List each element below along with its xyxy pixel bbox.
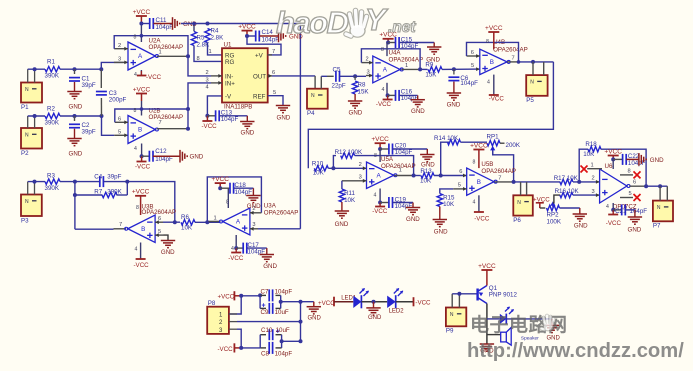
pin 6 stub U3B xyxy=(155,221,163,223)
wire P3 pins to R3 node xyxy=(27,182,29,195)
svg-text:4: 4 xyxy=(134,146,137,152)
capacitor C11 xyxy=(149,18,151,29)
svg-text:-VCC: -VCC xyxy=(228,255,244,262)
svg-text:GND: GND xyxy=(434,229,448,236)
op-amp U4B xyxy=(480,49,507,74)
wire C15 to GND xyxy=(399,42,434,44)
svg-text:R1: R1 xyxy=(47,59,55,66)
pin 6 stub U2B xyxy=(115,121,128,123)
svg-text:+VCC: +VCC xyxy=(133,9,151,16)
wire output to P5/loop xyxy=(519,61,554,63)
svg-text:C8: C8 xyxy=(261,350,269,357)
svg-text:8: 8 xyxy=(381,47,384,53)
pin 1 stub U6 with X xyxy=(587,168,602,170)
svg-text:8: 8 xyxy=(486,39,489,45)
capacitor C19 xyxy=(380,202,389,204)
svg-text:N: N xyxy=(530,80,534,86)
svg-text:7: 7 xyxy=(119,222,122,228)
wire U6 V- stem xyxy=(612,203,614,210)
wire node up to R12 xyxy=(333,156,336,169)
svg-text:6: 6 xyxy=(459,169,462,175)
svg-text:GND: GND xyxy=(69,151,83,158)
wire U5A output xyxy=(394,175,413,177)
svg-text:R8: R8 xyxy=(358,81,366,88)
svg-text:39pF: 39pF xyxy=(82,82,96,89)
power +VCC above U3A xyxy=(215,182,226,184)
svg-text:-VCC: -VCC xyxy=(135,163,151,170)
wire R1 to C1 node xyxy=(60,68,101,70)
wire RP1 wiper to out xyxy=(493,151,514,182)
svg-text:6: 6 xyxy=(633,180,636,186)
capacitor C7 xyxy=(260,294,266,296)
connector P6 xyxy=(513,195,533,215)
svg-text:8: 8 xyxy=(134,35,137,41)
power -VCC below U5A xyxy=(379,203,381,207)
svg-text:7: 7 xyxy=(272,49,275,55)
svg-text:PNP 9012: PNP 9012 xyxy=(489,292,518,299)
junction U5B output xyxy=(512,180,516,184)
svg-text:OUT: OUT xyxy=(253,74,266,81)
svg-text:RG: RG xyxy=(225,59,234,66)
svg-text:7: 7 xyxy=(159,120,162,126)
connector P3 xyxy=(21,195,42,217)
ground below R15 xyxy=(439,207,441,220)
junction -V/C13 xyxy=(205,114,209,118)
svg-text:15K: 15K xyxy=(358,88,370,95)
power +VCC near C14 xyxy=(242,30,253,32)
svg-text:10K: 10K xyxy=(313,170,325,177)
svg-text:3: 3 xyxy=(118,57,121,63)
junction VCC/C11 xyxy=(139,22,143,26)
svg-text:P9: P9 xyxy=(446,328,454,335)
resistor R7 xyxy=(102,192,117,197)
junction feedback/V+ crossing xyxy=(140,34,144,38)
junction R9/C6 xyxy=(452,67,456,71)
resistor R18 xyxy=(588,147,601,152)
svg-text:R14 10K: R14 10K xyxy=(434,135,459,142)
wire VCC to C14 xyxy=(247,35,256,37)
svg-text:-VCC: -VCC xyxy=(606,220,622,227)
op-amp U3B xyxy=(128,215,155,243)
wire U5B output xyxy=(495,181,514,183)
power +VCC above U4A xyxy=(383,38,394,40)
ground below C13 xyxy=(246,116,248,122)
wire P9 pins up xyxy=(451,294,453,308)
junction VCC/C20 xyxy=(378,147,382,151)
pin 5 stub U5B xyxy=(453,188,467,190)
pin 3 stub U3A xyxy=(250,228,258,230)
junction LED mid xyxy=(372,300,376,304)
svg-text:6: 6 xyxy=(118,116,121,122)
wire U4B V- stem xyxy=(493,75,495,95)
svg-text:4: 4 xyxy=(487,80,490,86)
wire U4A V+ stem xyxy=(386,43,388,57)
resistor R14 xyxy=(448,140,461,145)
capacitor C20 xyxy=(380,148,389,150)
svg-text:-VCC: -VCC xyxy=(474,216,490,223)
svg-text:3: 3 xyxy=(367,70,370,76)
op-amp U4A xyxy=(373,56,400,83)
power -VCC below U2A xyxy=(137,75,147,77)
ground below R11 xyxy=(341,202,343,211)
resistor R10 xyxy=(314,166,328,171)
connector P1 xyxy=(21,83,42,103)
capacitor C8 xyxy=(260,347,266,349)
pin 8 stub U6 with X xyxy=(620,174,633,176)
junction R3/C4 node xyxy=(73,180,77,184)
wire P1 pins to R1 node xyxy=(27,69,29,82)
svg-text:+VCC: +VCC xyxy=(371,136,389,143)
wire U2B feedback xyxy=(115,109,188,122)
svg-text:P6: P6 xyxy=(513,217,521,224)
svg-text:6: 6 xyxy=(272,70,275,76)
junction caps right mid xyxy=(279,300,283,304)
wire U2A V+ stem xyxy=(140,24,142,43)
wire node to R7 xyxy=(75,194,103,196)
junction -VCC rail xyxy=(239,346,243,350)
resistor R17 xyxy=(560,179,573,184)
connector P5 xyxy=(526,75,547,96)
power -VCC below U6 xyxy=(612,210,614,215)
wire LED2 to -VCC xyxy=(396,301,414,303)
power +VCC above Q1 xyxy=(481,269,492,271)
svg-text:6: 6 xyxy=(471,50,474,56)
svg-text:104pF: 104pF xyxy=(401,43,419,50)
svg-text:R17 10K: R17 10K xyxy=(554,175,579,182)
resistor R8 xyxy=(354,76,356,80)
op-amp U3A xyxy=(223,208,250,235)
svg-text:http://www.cndzz.com/: http://www.cndzz.com/ xyxy=(467,340,684,362)
wire node down xyxy=(74,182,76,230)
wire rail to R5 xyxy=(193,24,195,32)
svg-text:B: B xyxy=(138,127,142,134)
junction VCC/C15 xyxy=(386,41,390,45)
svg-text:P2: P2 xyxy=(21,150,29,157)
pin 2 stub U4A xyxy=(361,62,372,64)
wire P4 right pin up xyxy=(320,76,322,88)
svg-text:+V: +V xyxy=(255,52,264,59)
svg-text:N: N xyxy=(25,133,29,139)
svg-text:3: 3 xyxy=(252,222,255,228)
svg-text:8: 8 xyxy=(628,169,631,175)
wire U4A V- stem xyxy=(386,83,388,96)
power -VCC below U5B xyxy=(474,211,484,213)
ground right of RP2 xyxy=(579,208,581,214)
junction P1 right pin xyxy=(33,67,37,71)
ground right of C11 xyxy=(172,17,174,30)
ground right of speaker xyxy=(545,324,559,326)
power -VCC below U4A xyxy=(387,95,389,99)
ground mid stub xyxy=(313,302,315,307)
svg-text:R2: R2 xyxy=(47,105,55,112)
wire collector down xyxy=(486,304,488,345)
svg-text:C7: C7 xyxy=(261,288,269,295)
svg-text:2: 2 xyxy=(359,162,362,168)
op-amp U5B xyxy=(467,168,494,195)
capacitor C14 xyxy=(255,31,257,42)
svg-text:OPA2604AP: OPA2604AP xyxy=(493,47,528,54)
junction U4B output xyxy=(517,60,521,64)
pin 3 stub U6 xyxy=(596,193,600,197)
connector P2 xyxy=(21,128,42,149)
svg-text:1: 1 xyxy=(591,162,594,168)
wire P5 pins xyxy=(532,62,534,75)
wire C21 to GND xyxy=(626,209,635,211)
pin5 REF wire xyxy=(268,96,283,106)
wire pin3 to R11 xyxy=(341,181,343,189)
wire C5 to R8 node xyxy=(340,75,366,77)
resistor R9 xyxy=(420,68,427,70)
ground right of C22 xyxy=(638,153,640,166)
resistor R11 xyxy=(339,189,344,202)
wire R10 to node xyxy=(328,167,364,169)
svg-text:GND: GND xyxy=(411,108,425,115)
svg-text:22pF: 22pF xyxy=(332,83,346,90)
wire pin5 to R15 xyxy=(440,189,453,194)
pin 6 stub U5B xyxy=(463,174,467,178)
svg-text:R7: R7 xyxy=(94,189,102,196)
capacitor C5 xyxy=(327,75,334,77)
ground below LEDs xyxy=(373,302,375,308)
svg-text:10K: 10K xyxy=(344,197,356,204)
power -VCC LED row xyxy=(413,297,415,306)
wire P2 pins to R2 node xyxy=(27,116,29,128)
svg-text:haoD: haoD xyxy=(276,5,349,40)
svg-text:2: 2 xyxy=(118,43,121,49)
junction P2 right pin xyxy=(33,114,37,118)
capacitor C13 xyxy=(207,115,215,117)
svg-text:REF: REF xyxy=(253,93,266,100)
wire rail corner down right xyxy=(208,24,301,228)
junction V-/C17 xyxy=(234,246,238,250)
svg-text:C9: C9 xyxy=(261,309,269,316)
power -VCC below U3B xyxy=(136,258,146,260)
svg-text:2.8K: 2.8K xyxy=(197,42,211,49)
svg-text:5: 5 xyxy=(158,229,161,235)
svg-text:+VCC: +VCC xyxy=(238,23,256,30)
svg-text:OPA2604AP: OPA2604AP xyxy=(264,209,299,216)
power -VCC below U2B xyxy=(141,156,143,161)
svg-text:8: 8 xyxy=(374,153,377,159)
svg-text:8: 8 xyxy=(197,56,200,62)
resistor R1 xyxy=(45,67,60,72)
svg-text:4: 4 xyxy=(231,246,234,252)
junction R6 left xyxy=(173,220,177,224)
ground below C15 xyxy=(427,46,441,48)
svg-text:1: 1 xyxy=(159,50,162,56)
svg-text:7: 7 xyxy=(512,55,515,61)
wire U4B out down to stage3 xyxy=(308,62,553,168)
svg-text:+VCC: +VCC xyxy=(211,176,229,183)
svg-text:R5: R5 xyxy=(197,35,205,42)
svg-text:-VCC: -VCC xyxy=(415,299,431,306)
capacitor C21 xyxy=(613,209,621,211)
potentiometer RP2 xyxy=(540,207,546,209)
wire output to IN- xyxy=(188,56,211,76)
svg-text:5: 5 xyxy=(118,129,121,135)
junction V-/C19 xyxy=(378,201,382,205)
svg-text:4: 4 xyxy=(135,247,138,253)
svg-text:R6: R6 xyxy=(181,214,189,221)
capacitor C2 xyxy=(74,116,76,121)
resistor R12 xyxy=(341,153,355,158)
svg-text:104pF: 104pF xyxy=(275,350,293,357)
junction P5 left pin xyxy=(531,60,535,64)
svg-text:P5: P5 xyxy=(526,97,534,104)
svg-text:200K: 200K xyxy=(506,142,521,149)
power +VCC above U6 xyxy=(608,155,619,157)
junction V-/C16 xyxy=(386,93,390,97)
svg-text:390K: 390K xyxy=(45,185,60,192)
svg-text:OPA2604AP: OPA2604AP xyxy=(142,209,177,216)
capacitor C10 electrolytic xyxy=(260,334,266,336)
pin 5 stub U3B xyxy=(155,234,163,236)
svg-text:1: 1 xyxy=(214,216,217,222)
svg-text:R9: R9 xyxy=(425,62,433,69)
power +VCC above U4B xyxy=(488,31,499,33)
ground below C17 xyxy=(260,254,274,256)
resistor R6 xyxy=(181,220,195,225)
power +VCC above U2B xyxy=(136,93,147,95)
svg-text:104pF: 104pF xyxy=(395,149,413,156)
svg-text:GND: GND xyxy=(263,263,277,270)
svg-text:+VCC: +VCC xyxy=(604,148,622,155)
wire R13 to pin6 node xyxy=(434,175,467,177)
svg-text:GND: GND xyxy=(628,227,642,234)
wire RP2 wiper to R16 xyxy=(553,195,560,203)
ground below R8 xyxy=(354,94,356,101)
watermark cndzz text xyxy=(467,313,684,362)
wire C4 right xyxy=(104,181,128,183)
svg-text:N: N xyxy=(657,205,661,211)
pin 2 stub U6 xyxy=(596,180,600,184)
junction R7 row xyxy=(73,193,77,197)
svg-text:5: 5 xyxy=(458,183,461,189)
wire R4 to pin1 xyxy=(208,43,222,55)
svg-text:P3: P3 xyxy=(21,217,29,224)
junction C4/R7 right xyxy=(125,180,129,184)
wire U2B output xyxy=(157,128,188,130)
svg-text:N: N xyxy=(25,199,29,205)
svg-text:+VCC: +VCC xyxy=(318,300,335,307)
svg-text:104pF: 104pF xyxy=(275,288,293,295)
svg-text:+VCC: +VCC xyxy=(218,294,235,301)
power -VCC below U4B xyxy=(489,94,499,96)
capacitor C22 xyxy=(613,158,622,160)
pin6 OUT wire xyxy=(268,75,272,77)
wire U2A output xyxy=(157,55,188,57)
capacitor C12 xyxy=(148,151,150,162)
wire C22 to GND xyxy=(626,158,639,160)
svg-text:-VCC: -VCC xyxy=(134,262,150,269)
wire R14 to RP1 xyxy=(461,141,488,143)
wire C12 to GND xyxy=(153,155,180,157)
wire +VCC to caps xyxy=(241,295,260,297)
wire collector to LED3 xyxy=(487,318,500,320)
wire C17 to GND xyxy=(247,247,267,249)
junction R13/R14 xyxy=(439,174,443,178)
wire R6 right xyxy=(195,221,221,223)
ground right of C14 xyxy=(278,30,280,43)
svg-text:-VCC: -VCC xyxy=(372,208,388,215)
svg-text:104pF: 104pF xyxy=(221,116,239,123)
speaker SP xyxy=(501,332,507,342)
wire U4B output xyxy=(507,61,518,63)
junction R1/C1 xyxy=(73,67,77,71)
ground below C1 xyxy=(67,91,81,93)
op-amp U2A xyxy=(128,42,155,70)
svg-text:8: 8 xyxy=(134,108,137,114)
svg-text:GND: GND xyxy=(335,221,349,228)
pin 6 stub U4B xyxy=(467,55,480,57)
power +VCC above U5B xyxy=(473,149,484,151)
svg-text:39pF: 39pF xyxy=(107,174,121,181)
potentiometer RP1 xyxy=(487,141,500,146)
wire R16 to pin3 U6 xyxy=(573,194,600,196)
connector P7 xyxy=(653,201,673,222)
svg-text:R16 10K: R16 10K xyxy=(555,188,580,195)
svg-text:N: N xyxy=(450,312,454,318)
ground below C16 xyxy=(411,99,425,101)
svg-text:8: 8 xyxy=(473,160,476,166)
svg-text:GND: GND xyxy=(247,203,261,210)
junction GND rail node xyxy=(299,300,303,304)
wire U6 output xyxy=(629,185,646,187)
svg-text:B: B xyxy=(490,59,494,66)
svg-text:U5A: U5A xyxy=(381,156,394,163)
wire output to IN+ xyxy=(188,83,211,129)
svg-text:7: 7 xyxy=(498,175,501,181)
svg-text:IN+: IN+ xyxy=(225,80,235,87)
wire R2 to C2 node xyxy=(60,115,102,117)
wire C11 to GND xyxy=(154,23,173,25)
svg-text:4: 4 xyxy=(606,204,609,210)
svg-text:10uF: 10uF xyxy=(276,327,290,334)
svg-text:B: B xyxy=(477,179,481,186)
svg-text:5: 5 xyxy=(629,191,632,197)
power +VCC above U5A xyxy=(375,142,386,144)
op-amp U5A xyxy=(367,162,394,189)
svg-text:OPA2604AP: OPA2604AP xyxy=(149,114,184,121)
junction U2A output xyxy=(186,54,190,58)
resistor R13 xyxy=(414,175,421,177)
svg-text:2: 2 xyxy=(366,57,369,63)
junction V-/C21 xyxy=(611,208,615,212)
svg-text:4: 4 xyxy=(382,87,385,93)
wire LED1 to GND xyxy=(361,301,387,303)
svg-text:39pF: 39pF xyxy=(82,129,96,136)
svg-text:10uF: 10uF xyxy=(275,309,289,316)
junction caps left xyxy=(258,293,262,297)
pin1 stub U3A xyxy=(209,220,221,222)
resistor R3 xyxy=(45,179,60,184)
transistor Q1 PNP xyxy=(476,289,478,301)
junction U6 out/R18 xyxy=(644,184,648,188)
capacitor C6 xyxy=(453,69,455,74)
resistor R16 xyxy=(560,192,573,197)
wire pin2 row xyxy=(229,321,237,323)
junction base node xyxy=(457,292,461,296)
svg-text:C12: C12 xyxy=(155,148,167,155)
junction R18 tap xyxy=(577,180,581,184)
wire pin1 riser xyxy=(229,296,241,314)
svg-text:104pF: 104pF xyxy=(395,203,413,210)
capacitor C16 xyxy=(388,94,396,96)
wire U3A pin3 from rail xyxy=(258,228,300,230)
svg-text:N: N xyxy=(25,87,29,93)
svg-text:+VCC: +VCC xyxy=(133,86,151,93)
svg-text:C14: C14 xyxy=(262,29,274,36)
